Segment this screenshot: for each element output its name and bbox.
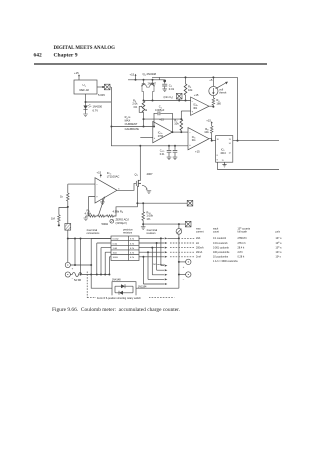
input resistor chain: wire from IC1 input down (67, 184, 69, 193)
svg-text:+: + (154, 137, 156, 140)
svg-text:10 µcoulombs: 10 µcoulombs (213, 256, 229, 259)
svg-text:Chapter 9: Chapter 9 (54, 53, 78, 59)
wafer A row wires and contact arrows (139, 237, 167, 257)
svg-text:+15: +15 (159, 118, 164, 122)
lower output rail to J4 (143, 223, 185, 225)
output terminal + (186, 259, 191, 264)
node meter cal tap (178, 223, 180, 225)
zero adjust network R9a pot R9b (84, 196, 138, 223)
connector J4 (185, 221, 191, 227)
node R7 bottom (180, 131, 182, 133)
svg-text:10k: 10k (188, 88, 193, 92)
wire IC1 inverting input (68, 183, 95, 185)
row wires left staircase (91, 238, 111, 274)
wiper bus (178, 234, 180, 288)
resistor R10 (142, 203, 145, 224)
svg-text:1k: 1k (60, 195, 64, 199)
svg-text:–: – (189, 131, 191, 134)
node + wire (74, 264, 76, 266)
node at 5.00V (102, 86, 104, 88)
svg-text:13: 13 (229, 139, 231, 141)
header rule (34, 63, 267, 64)
svg-text:full scale: full scale (238, 231, 248, 234)
wire Q1 drain to rail (139, 146, 141, 181)
node ref rail tap (110, 126, 112, 128)
node Q2a emitter (143, 79, 145, 81)
svg-text:500Ω: 500Ω (102, 222, 109, 226)
svg-text:LT1100AC: LT1100AC (107, 175, 120, 179)
terminal dot at R3 (58, 224, 60, 226)
svg-text:ZERO ADJ: ZERO ADJ (116, 217, 130, 221)
wire shunt to + terminal (67, 230, 69, 262)
node M1 top (212, 76, 214, 78)
diode D1 (LED indicator) (83, 104, 91, 113)
rotary switch note (96, 295, 149, 300)
node R5 top (185, 76, 187, 78)
svg-text:+15: +15 (206, 119, 211, 123)
node wiper top (178, 237, 180, 239)
resistor R2 1k (67, 193, 70, 224)
wire U1 output 5.00V (97, 86, 111, 88)
svg-text:104 s: 104 s (276, 251, 283, 254)
svg-text:10k: 10k (204, 130, 209, 134)
transistor Q2a (141, 80, 149, 101)
node R10 bottom (142, 223, 144, 225)
ground below C5 (173, 157, 178, 160)
node row5 bottom (108, 274, 110, 276)
input terminal + (65, 262, 70, 267)
svg-text:20mA: 20mA (196, 251, 203, 254)
svg-text:Q2 2N4348: Q2 2N4348 (143, 72, 157, 77)
svg-text:4007: 4007 (147, 172, 154, 176)
svg-text:NC contacts: NC contacts (153, 263, 165, 266)
table leader dashes (170, 238, 194, 256)
label max current calibrate (125, 115, 140, 131)
svg-text:12: 12 (229, 152, 231, 154)
svg-text:278.4 h: 278.4 h (238, 242, 247, 245)
svg-text:5A SB: 5A SB (74, 279, 81, 282)
svg-text:0.1 coulomb: 0.1 coulomb (213, 237, 227, 240)
wafer B drop wires and contact arrows (143, 238, 167, 285)
svg-text:thresh: thresh (219, 92, 227, 95)
svg-text:–: – (183, 278, 185, 281)
clamp internal side wires (115, 286, 133, 293)
wire clamp right (136, 287, 179, 289)
node input branch (67, 206, 69, 208)
voltage reference U1 REF-02 (74, 80, 97, 94)
comparator IC3 (188, 128, 216, 150)
svg-text:6.7k: 6.7k (130, 257, 135, 259)
svg-text:+: + (96, 196, 98, 199)
diode clamp box (112, 282, 136, 297)
svg-text:–: – (96, 183, 98, 186)
node R8 bottom (211, 140, 213, 142)
svg-text:2780.8 h: 2780.8 h (238, 237, 248, 240)
wire + terminal to switch (70, 264, 91, 266)
svg-text:1N4200: 1N4200 (93, 105, 103, 109)
svg-text:REF-02: REF-02 (80, 88, 90, 92)
wire clamp left (91, 275, 112, 289)
node wiper at + output (178, 261, 180, 263)
svg-text:311: 311 (192, 139, 196, 142)
svg-text:current: current (196, 231, 204, 234)
sense wire a (74, 239, 76, 266)
shunt selector box (111, 236, 139, 261)
svg-text:1N1184: 1N1184 (138, 286, 147, 289)
svg-text:+: + (72, 267, 74, 270)
wire node to reference rail (86, 101, 112, 103)
shunt table row labels (113, 239, 135, 259)
wire IC2a noninverting input (140, 137, 153, 139)
svg-text:DIGITAL MEETS ANALOG: DIGITAL MEETS ANALOG (54, 45, 116, 51)
svg-text:4.99k: 4.99k (85, 211, 92, 215)
wire J2 stub (178, 99, 180, 101)
input terminal - (65, 272, 70, 277)
svg-text:+5: +5 (209, 78, 213, 82)
svg-text:1 A·h = 3600 coulombs: 1 A·h = 3600 coulombs (213, 260, 238, 263)
pin numbers IC5 (217, 139, 232, 162)
node R10 top (142, 202, 144, 204)
shunt element box (65, 224, 71, 231)
svg-text:–: – (192, 100, 194, 103)
node Q1 drain on rail (139, 145, 141, 147)
wire comparator input rail (144, 100, 191, 102)
svg-text:+: + (192, 111, 194, 114)
ground mark below IC5 (222, 162, 226, 167)
node fuse sense (80, 274, 82, 276)
wire IC1 noninverting input (89, 197, 96, 217)
node row2 bottom (96, 274, 98, 276)
reference rail wire (111, 87, 188, 146)
svg-text:µs/s: µs/s (276, 231, 281, 234)
node at trimmer bottom (143, 118, 145, 120)
svg-text:0.01Ω: 0.01Ω (113, 239, 119, 241)
resistor R7 (180, 111, 183, 132)
MOSFET Q1 (136, 180, 141, 187)
svg-text:CALIBRATE: CALIBRATE (125, 127, 140, 131)
svg-text:0.01: 0.01 (169, 87, 175, 91)
svg-text:MAX: MAX (125, 119, 131, 123)
svg-text:642: 642 (34, 53, 43, 59)
diode D2 1N4148 (115, 284, 133, 288)
+15 supply arrow at U1 (78, 74, 80, 80)
svg-text:0.005µF: 0.005µF (155, 109, 165, 112)
transistor Q2b (149, 80, 154, 101)
svg-text:+15: +15 (195, 149, 200, 153)
wire to output + terminal (179, 261, 186, 263)
svg-text:Q1: Q1 (135, 172, 139, 177)
node comparator B output (212, 106, 214, 108)
svg-text:CURRENT: CURRENT (125, 122, 138, 126)
trimmer R4 max-current calibrate (139, 101, 145, 127)
svg-text:6.7V: 6.7V (93, 109, 99, 113)
node C4 top (168, 145, 170, 147)
svg-text:20A: 20A (196, 237, 201, 240)
diode D3 reverse (115, 291, 133, 295)
wire IC1 output to Q1 gate (117, 183, 136, 190)
node at flip-flop supply (237, 140, 239, 142)
svg-text:1.0Ω: 1.0Ω (113, 248, 118, 250)
svg-text:5.00V: 5.00V (98, 93, 105, 97)
node IC2a output (171, 131, 173, 133)
sense wire b (80, 239, 82, 275)
integrating capacitor C1 (154, 111, 172, 132)
svg-text:105 s: 105 s (276, 246, 283, 249)
svg-text:(trim C1): (trim C1) (164, 96, 174, 100)
fuse F1 5A (70, 272, 109, 276)
node R5 bottom (185, 100, 187, 102)
ground below R10 (141, 224, 146, 229)
IC1 ground stub (100, 199, 105, 205)
svg-text:100Ω: 100Ω (113, 257, 119, 259)
svg-text:200mA: 200mA (196, 246, 204, 249)
output rail to J3 (137, 202, 187, 204)
svg-text:(±150µV): (±150µV) (116, 221, 127, 225)
Q1 case arrow to ground (142, 185, 151, 193)
output terminal - (186, 272, 191, 277)
sense rail wire (68, 238, 111, 240)
svg-text:0.1Ω: 0.1Ω (113, 243, 118, 245)
rotary switch dashed linkage (87, 272, 174, 298)
svg-text:10³ s: 10³ s (276, 256, 282, 259)
svg-text:count: count (213, 231, 219, 234)
svg-text:4013: 4013 (220, 152, 226, 155)
svg-text:2A: 2A (196, 242, 199, 245)
resistor R3 1M (58, 215, 61, 224)
svg-text:1%: 1% (146, 217, 151, 221)
svg-text:–: – (154, 125, 156, 128)
svg-text:resistors: resistors (123, 232, 133, 235)
+15 bus wire (128, 79, 165, 81)
node sense rail left (67, 238, 69, 240)
wire trimmer bottom to R7 (144, 118, 182, 120)
capacitor C2 bypass (162, 80, 167, 89)
resistor R5 (184, 77, 187, 100)
svg-text:+: + (183, 266, 185, 269)
flip-flop IC5 4013 (216, 136, 233, 163)
connector J1 on 5.00V line (104, 84, 110, 90)
svg-text:28.4 h: 28.4 h (238, 246, 245, 249)
IC1 supply stub arrow (100, 174, 102, 177)
svg-text:1k: 1k (145, 109, 148, 112)
node C2 top (heavy junction) (163, 80, 166, 83)
ground below D1 (83, 114, 88, 117)
node on +15 bus (135, 79, 137, 81)
svg-text:100 µcoulombs: 100 µcoulombs (213, 251, 230, 254)
position 1 through wire (167, 237, 179, 239)
svg-text:180: 180 (216, 102, 221, 106)
node row4 bottom (104, 274, 106, 276)
wire to output - terminal (179, 274, 186, 276)
connector J2 trim C1 (176, 93, 182, 99)
svg-text:9: 9 (217, 160, 218, 162)
svg-text:0.01: 0.01 (160, 153, 165, 156)
node J2 stub (178, 100, 180, 102)
svg-text:+15: +15 (74, 71, 79, 75)
gray note 4-terminal connections (87, 228, 165, 266)
capacitor C4 (167, 146, 172, 157)
svg-text:+15: +15 (130, 73, 135, 77)
ground below C2 (162, 89, 167, 92)
svg-text:2N4007: 2N4007 (148, 83, 157, 86)
+15 supply arrow mid (135, 74, 137, 80)
svg-text:1M: 1M (51, 216, 56, 220)
node sense a (74, 238, 76, 240)
node row1 bottom (90, 274, 92, 276)
svg-text:Form-5 5-position shorting ro: Form-5 5-position shorting rotary switch (97, 297, 142, 300)
meter cal pot (176, 224, 182, 234)
node feedback tap (153, 126, 155, 128)
svg-text:14: 14 (229, 143, 232, 145)
wire IC2a output to IC3 (172, 131, 188, 133)
node trimmer top (143, 100, 145, 102)
node below U1 (85, 101, 87, 103)
resistor R6 (212, 96, 215, 107)
wire branch to R3 (59, 208, 68, 215)
svg-text:8: 8 (217, 155, 218, 157)
node mirror output (152, 100, 154, 102)
node trimmer to input line (143, 126, 145, 128)
node wiper at - output (178, 274, 180, 276)
svg-text:+15: +15 (194, 93, 199, 97)
svg-text:11: 11 (222, 160, 224, 162)
ground below C4 (167, 157, 172, 160)
svg-text:10Ω: 10Ω (113, 253, 117, 255)
svg-text:2.8 h: 2.8 h (238, 251, 244, 254)
wafer A staircase nodes (142, 237, 162, 257)
comparator IC2b (181, 97, 213, 115)
svg-text:resistors: resistors (147, 232, 157, 235)
wire U1 bottom (85, 94, 87, 106)
svg-text:U1: U1 (83, 83, 87, 88)
+15 pull-up arrow (211, 121, 213, 126)
svg-text:1N4148: 1N4148 (112, 279, 121, 282)
svg-text:2mA: 2mA (196, 256, 201, 259)
svg-text:301: 301 (193, 107, 198, 110)
svg-text:107 s: 107 s (276, 237, 283, 240)
capacitor C5 (173, 146, 178, 157)
wire IC5 pin 8 to counter (218, 162, 280, 169)
node R7 top rail (180, 118, 182, 120)
svg-text:1%: 1% (133, 105, 138, 109)
svg-text:connections: connections (87, 232, 101, 235)
svg-text:4.99k R9: 4.99k R9 (113, 209, 124, 214)
resistor R8 pull-up (210, 126, 213, 141)
node Q2b emitter (152, 79, 154, 81)
op-amp IC1 (95, 178, 117, 203)
node sense b (80, 238, 82, 240)
+5 distribution line (152, 76, 238, 78)
node + wire at row1 (90, 264, 92, 266)
wire Q1 source to rail (136, 186, 138, 203)
op-amp integrator IC2a (153, 121, 173, 142)
node C5 top (174, 145, 176, 147)
node row3 bottom (100, 274, 102, 276)
svg-text:Figure 9.66. Coulomb meter:: Figure 9.66. Coulomb meter: accumulated … (52, 308, 180, 313)
wire IC5 output to counter (233, 140, 279, 142)
svg-text:+: + (189, 144, 191, 147)
svg-text:0.001 coulomb: 0.001 coulomb (213, 246, 229, 249)
rail tie (158, 77, 160, 79)
svg-text:2760: 2760 (158, 135, 164, 138)
+5 drop to counter (237, 77, 239, 140)
connector J3 (187, 200, 193, 206)
svg-text:10: 10 (217, 139, 219, 141)
node Q1 source rail (136, 202, 138, 204)
svg-text:0.01 coulomb: 0.01 coulomb (213, 242, 228, 245)
svg-text:0.28 h: 0.28 h (238, 256, 245, 259)
wire IC2a inverting input (111, 126, 152, 128)
current source / ovfl indicator M1 (209, 77, 228, 95)
svg-text:106 s: 106 s (276, 242, 283, 245)
